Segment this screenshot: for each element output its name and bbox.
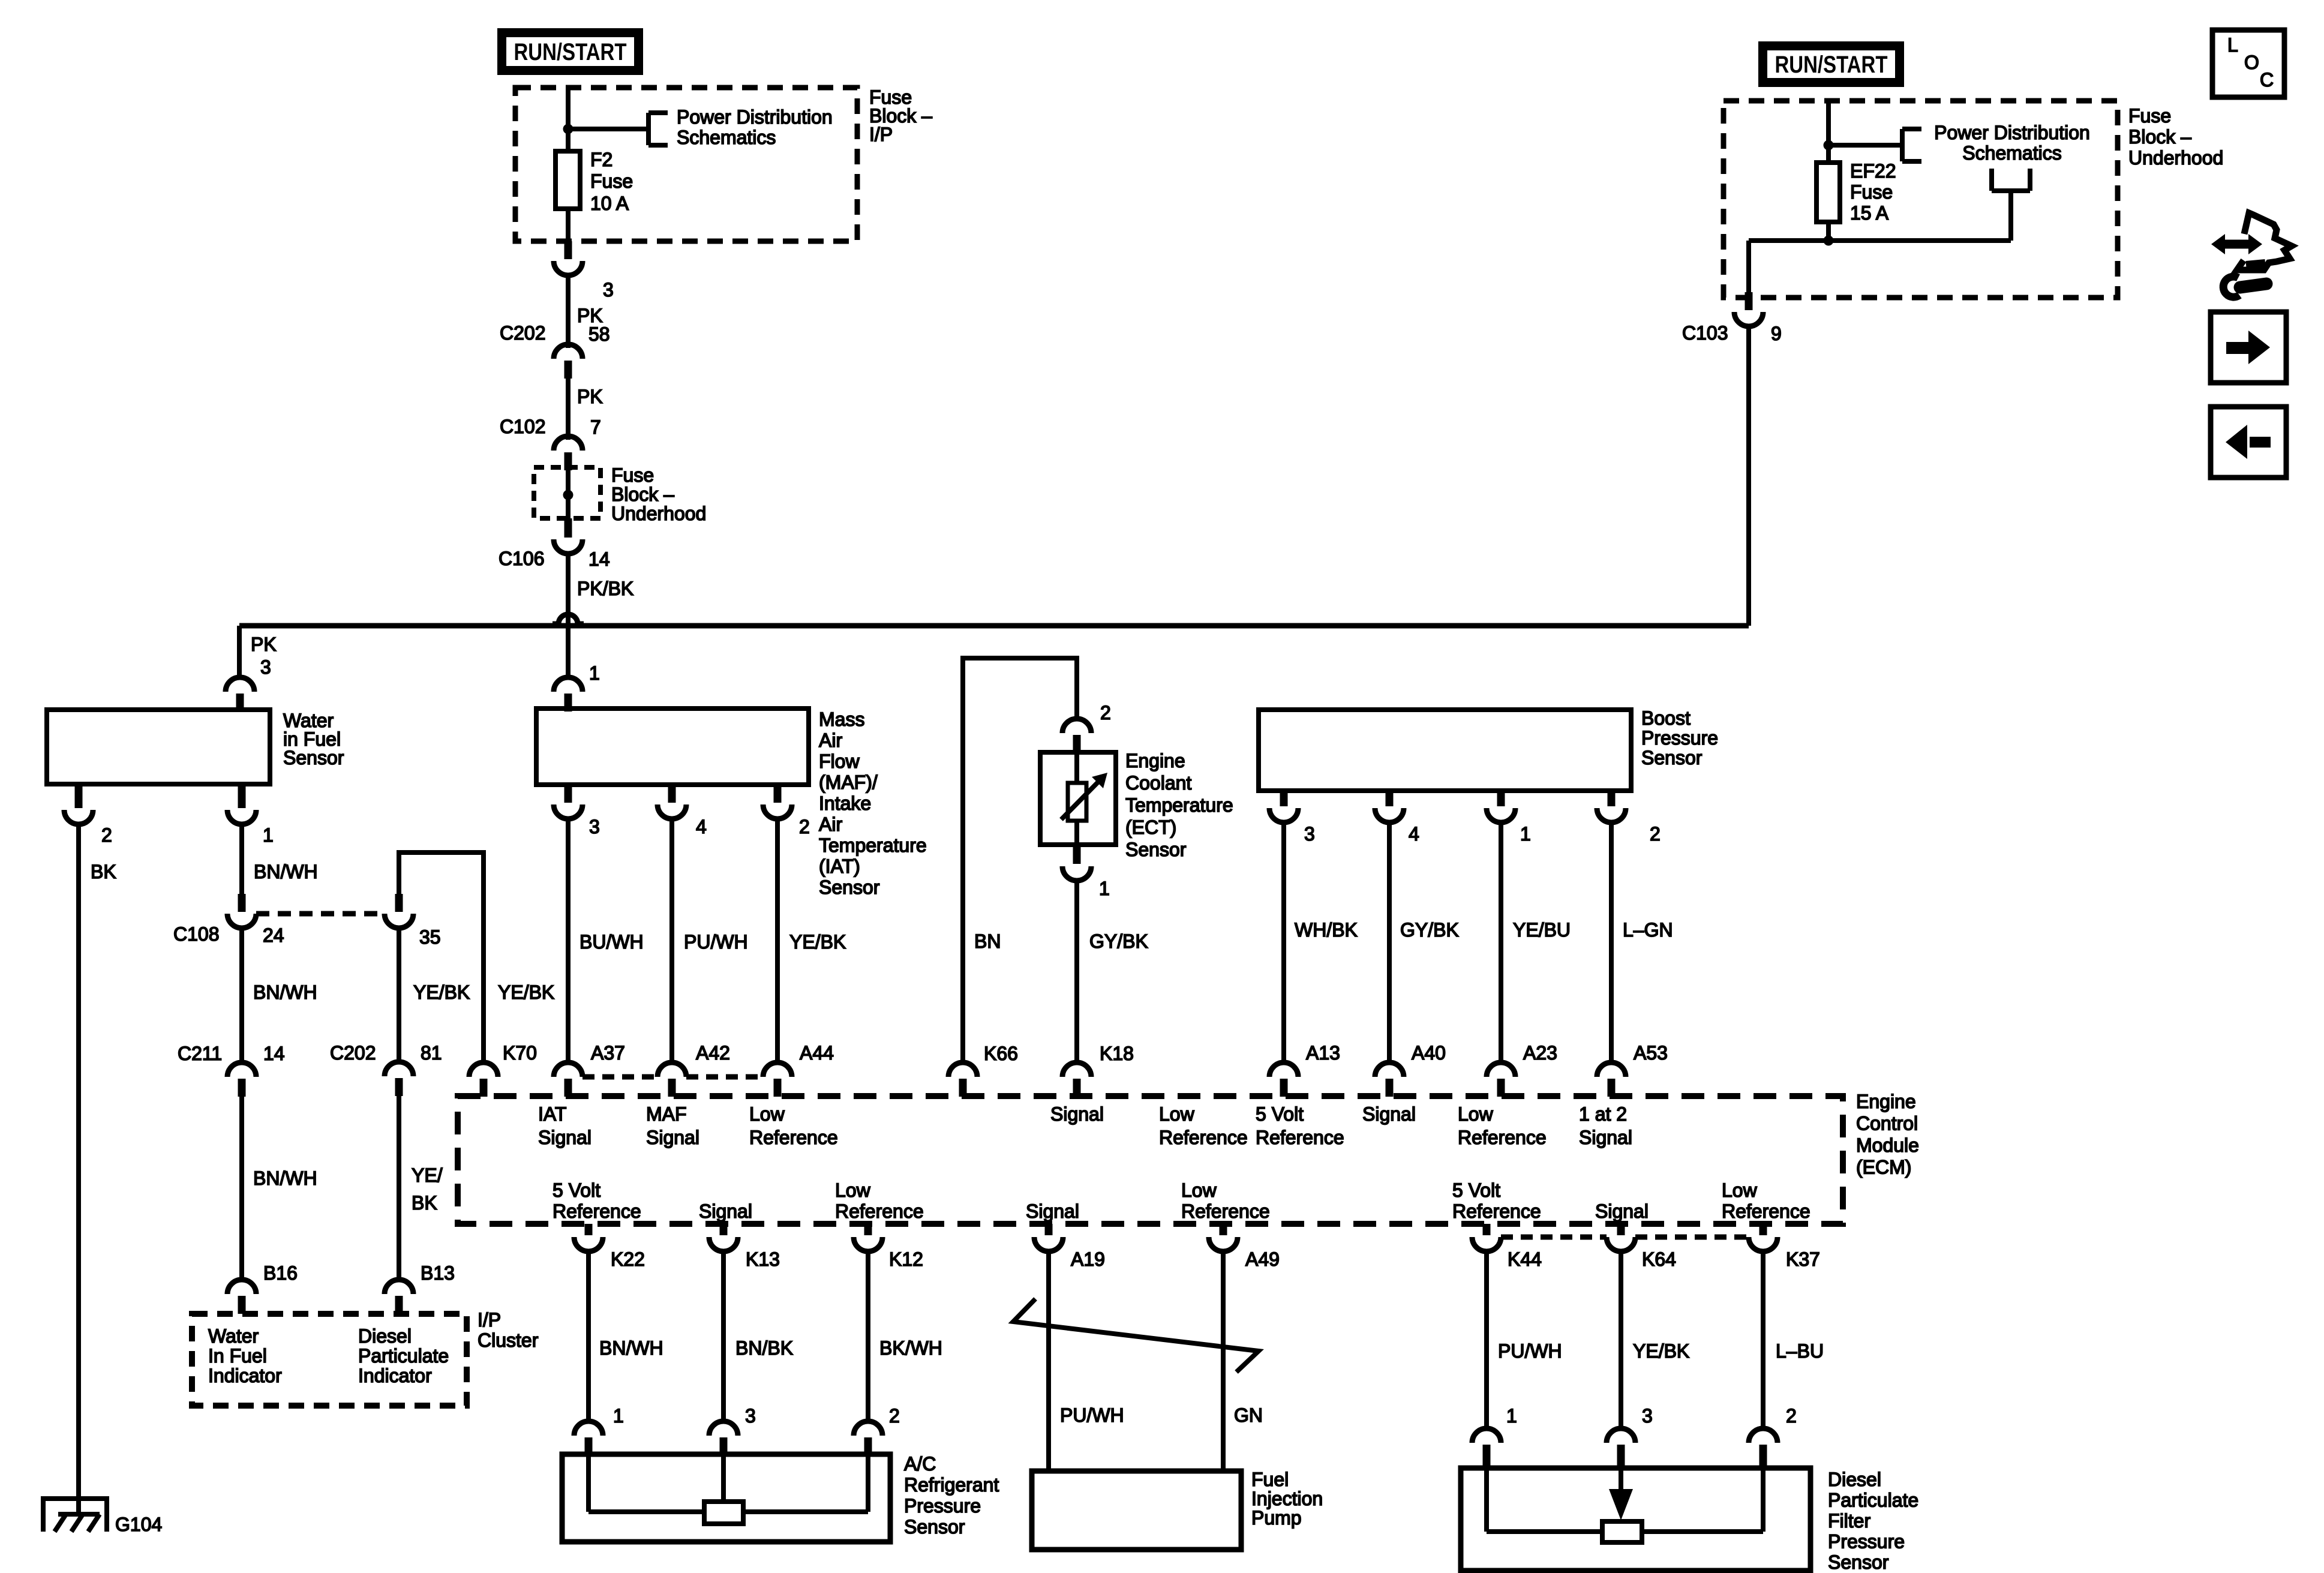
- svg-text:1: 1: [589, 662, 600, 684]
- svg-text:Engine: Engine: [1125, 750, 1185, 772]
- svg-text:BN/BK: BN/BK: [735, 1337, 793, 1359]
- svg-text:2: 2: [889, 1405, 900, 1427]
- svg-text:Fuse: Fuse: [2128, 105, 2171, 127]
- svg-text:BU/WH: BU/WH: [580, 931, 644, 953]
- svg-text:MAF: MAF: [646, 1103, 687, 1125]
- svg-text:L–GN: L–GN: [1623, 919, 1673, 941]
- svg-text:I/P: I/P: [478, 1309, 501, 1331]
- svg-text:C202: C202: [330, 1042, 376, 1064]
- svg-text:Reference: Reference: [1458, 1127, 1547, 1148]
- svg-text:YE/BK: YE/BK: [413, 981, 470, 1003]
- svg-text:Particulate: Particulate: [358, 1345, 449, 1367]
- svg-text:Pressure: Pressure: [904, 1495, 981, 1517]
- svg-text:C211: C211: [178, 1043, 222, 1064]
- svg-text:A19: A19: [1071, 1248, 1105, 1270]
- svg-text:Control: Control: [1856, 1113, 1918, 1134]
- svg-text:C108: C108: [173, 923, 220, 945]
- svg-text:G104: G104: [115, 1514, 162, 1535]
- svg-text:BN/WH: BN/WH: [254, 861, 318, 882]
- svg-text:1: 1: [1520, 823, 1531, 845]
- svg-text:Reference: Reference: [1256, 1127, 1344, 1148]
- svg-text:A37: A37: [591, 1042, 625, 1064]
- svg-text:Signal: Signal: [699, 1200, 752, 1222]
- svg-text:Sensor: Sensor: [1125, 839, 1187, 860]
- svg-text:Schematics: Schematics: [677, 127, 776, 148]
- svg-text:(ECT): (ECT): [1125, 816, 1176, 838]
- svg-text:Water: Water: [208, 1325, 259, 1347]
- svg-text:2: 2: [1650, 823, 1661, 845]
- svg-text:YE/BK: YE/BK: [498, 981, 554, 1003]
- svg-text:Pressure: Pressure: [1641, 727, 1718, 749]
- svg-text:Air: Air: [819, 730, 842, 751]
- svg-text:IAT: IAT: [538, 1103, 566, 1125]
- svg-text:Sensor: Sensor: [904, 1516, 965, 1538]
- svg-text:1: 1: [263, 824, 274, 846]
- svg-text:14: 14: [588, 548, 610, 570]
- svg-text:81: 81: [421, 1042, 442, 1064]
- svg-text:5 Volt: 5 Volt: [553, 1179, 600, 1201]
- svg-text:K22: K22: [611, 1248, 645, 1270]
- svg-text:YE/BK: YE/BK: [789, 931, 846, 953]
- svg-text:3: 3: [1642, 1405, 1653, 1427]
- svg-text:Signal: Signal: [1595, 1200, 1649, 1222]
- svg-text:GN: GN: [1234, 1404, 1263, 1426]
- svg-text:K13: K13: [746, 1248, 780, 1270]
- svg-text:Reference: Reference: [1452, 1200, 1541, 1222]
- svg-text:K18: K18: [1100, 1043, 1134, 1064]
- svg-text:Power Distribution: Power Distribution: [677, 106, 833, 128]
- svg-text:Signal: Signal: [1050, 1103, 1104, 1125]
- svg-text:K70: K70: [503, 1042, 537, 1064]
- svg-text:4: 4: [1409, 823, 1419, 845]
- svg-text:RUN/START: RUN/START: [1775, 52, 1888, 78]
- svg-text:Boost: Boost: [1641, 707, 1691, 729]
- svg-text:Power Distribution: Power Distribution: [1934, 122, 2090, 143]
- svg-text:1: 1: [1099, 878, 1110, 899]
- svg-text:A23: A23: [1523, 1042, 1557, 1064]
- svg-text:Intake: Intake: [819, 792, 871, 814]
- svg-text:C102: C102: [500, 416, 546, 437]
- svg-text:K64: K64: [1642, 1248, 1676, 1270]
- svg-text:B13: B13: [421, 1262, 455, 1284]
- svg-text:A53: A53: [1634, 1042, 1668, 1064]
- svg-text:Sensor: Sensor: [1828, 1551, 1889, 1573]
- svg-text:A49: A49: [1245, 1248, 1280, 1270]
- svg-text:Signal: Signal: [1579, 1127, 1632, 1148]
- svg-text:I/P: I/P: [869, 124, 893, 145]
- svg-text:9: 9: [1771, 323, 1782, 344]
- svg-text:(IAT): (IAT): [819, 855, 860, 877]
- svg-text:Injection: Injection: [1251, 1488, 1323, 1509]
- svg-text:BN: BN: [974, 930, 1001, 952]
- svg-text:PK/BK: PK/BK: [577, 578, 633, 599]
- svg-text:Signal: Signal: [538, 1127, 591, 1148]
- svg-text:Mass: Mass: [819, 709, 864, 730]
- svg-text:PU/WH: PU/WH: [1060, 1404, 1124, 1426]
- svg-text:L: L: [2227, 34, 2238, 56]
- svg-text:BK: BK: [412, 1192, 437, 1214]
- svg-text:2: 2: [101, 824, 112, 846]
- svg-text:Air: Air: [819, 813, 842, 835]
- svg-text:Low: Low: [1722, 1179, 1758, 1201]
- svg-text:GY/BK: GY/BK: [1089, 930, 1148, 952]
- svg-text:WH/BK: WH/BK: [1295, 919, 1358, 941]
- svg-text:Fuse: Fuse: [590, 170, 633, 192]
- svg-text:YE/BU: YE/BU: [1513, 919, 1571, 941]
- svg-text:C202: C202: [500, 322, 546, 344]
- svg-text:Diesel: Diesel: [358, 1325, 412, 1347]
- svg-text:35: 35: [419, 926, 441, 948]
- svg-text:Block –: Block –: [611, 484, 674, 505]
- svg-text:10 A: 10 A: [590, 193, 629, 214]
- svg-text:Flow: Flow: [819, 751, 860, 772]
- svg-text:Particulate: Particulate: [1828, 1490, 1918, 1511]
- svg-text:Low: Low: [749, 1103, 785, 1125]
- svg-text:Refrigerant: Refrigerant: [904, 1474, 999, 1496]
- svg-text:C106: C106: [499, 548, 545, 569]
- svg-text:58: 58: [588, 323, 610, 345]
- svg-text:A42: A42: [696, 1042, 730, 1064]
- svg-text:1: 1: [1506, 1405, 1517, 1427]
- svg-text:(ECM): (ECM): [1856, 1157, 1911, 1178]
- svg-text:1: 1: [613, 1405, 624, 1427]
- svg-text:Low: Low: [835, 1179, 871, 1201]
- svg-text:K44: K44: [1508, 1248, 1542, 1270]
- svg-text:Module: Module: [1856, 1134, 1919, 1156]
- svg-text:Low: Low: [1458, 1103, 1494, 1125]
- svg-text:Block –: Block –: [2128, 126, 2191, 148]
- svg-text:3: 3: [603, 279, 614, 301]
- svg-text:Low: Low: [1181, 1179, 1217, 1201]
- svg-text:Indicator: Indicator: [208, 1365, 282, 1386]
- svg-text:Signal: Signal: [646, 1127, 699, 1148]
- svg-text:Reference: Reference: [1159, 1127, 1248, 1148]
- svg-text:GY/BK: GY/BK: [1400, 919, 1459, 941]
- svg-text:BN/WH: BN/WH: [253, 981, 317, 1003]
- svg-text:Temperature: Temperature: [1125, 794, 1233, 816]
- svg-text:Coolant: Coolant: [1125, 772, 1191, 794]
- svg-text:1 at 2: 1 at 2: [1579, 1103, 1627, 1125]
- svg-text:2: 2: [799, 816, 810, 837]
- svg-text:24: 24: [263, 924, 284, 946]
- svg-text:A44: A44: [800, 1042, 834, 1064]
- svg-text:Signal: Signal: [1026, 1200, 1079, 1222]
- svg-text:K37: K37: [1786, 1248, 1820, 1270]
- svg-text:PK: PK: [251, 634, 277, 655]
- svg-text:3: 3: [260, 656, 271, 678]
- svg-text:Underhood: Underhood: [611, 503, 706, 524]
- svg-text:C103: C103: [1682, 322, 1728, 344]
- svg-text:O: O: [2244, 52, 2259, 73]
- svg-text:2: 2: [1786, 1405, 1797, 1427]
- svg-text:Cluster: Cluster: [478, 1329, 539, 1351]
- svg-text:A13: A13: [1306, 1042, 1340, 1064]
- svg-text:2: 2: [1100, 702, 1111, 724]
- svg-text:Sensor: Sensor: [283, 747, 344, 769]
- svg-text:Filter: Filter: [1828, 1510, 1870, 1532]
- svg-text:5 Volt: 5 Volt: [1256, 1103, 1304, 1125]
- svg-text:Pressure: Pressure: [1828, 1531, 1905, 1553]
- svg-text:B16: B16: [263, 1262, 298, 1284]
- svg-text:Indicator: Indicator: [358, 1365, 432, 1386]
- svg-text:Reference: Reference: [749, 1127, 838, 1148]
- svg-text:Reference: Reference: [835, 1200, 924, 1222]
- svg-text:C: C: [2260, 69, 2274, 91]
- svg-text:A/C: A/C: [904, 1453, 936, 1475]
- svg-text:L–BU: L–BU: [1776, 1340, 1824, 1362]
- svg-text:BK/WH: BK/WH: [879, 1337, 942, 1359]
- svg-text:14: 14: [263, 1043, 285, 1064]
- svg-text:Underhood: Underhood: [2128, 147, 2223, 169]
- svg-text:EF22: EF22: [1850, 160, 1896, 182]
- svg-text:Fuse: Fuse: [1850, 181, 1893, 203]
- svg-text:PU/WH: PU/WH: [1498, 1340, 1562, 1362]
- svg-text:Low: Low: [1159, 1103, 1195, 1125]
- svg-text:BN/WH: BN/WH: [253, 1167, 317, 1189]
- svg-text:F2: F2: [590, 149, 612, 170]
- svg-text:Reference: Reference: [1722, 1200, 1810, 1222]
- svg-text:Sensor: Sensor: [819, 876, 880, 898]
- svg-text:7: 7: [590, 416, 601, 438]
- svg-text:BK: BK: [91, 861, 116, 882]
- svg-text:3: 3: [745, 1405, 756, 1427]
- svg-text:RUN/START: RUN/START: [514, 39, 627, 65]
- svg-text:YE/: YE/: [412, 1164, 443, 1186]
- svg-text:4: 4: [696, 816, 707, 837]
- svg-text:BN/WH: BN/WH: [599, 1337, 663, 1359]
- svg-text:Sensor: Sensor: [1641, 747, 1703, 769]
- svg-text:Temperature: Temperature: [819, 834, 927, 856]
- svg-text:YE/BK: YE/BK: [1633, 1340, 1689, 1362]
- svg-text:5 Volt: 5 Volt: [1452, 1179, 1500, 1201]
- svg-text:Fuse: Fuse: [611, 464, 654, 486]
- svg-text:Schematics: Schematics: [1962, 142, 2061, 164]
- svg-text:PK: PK: [577, 386, 603, 407]
- svg-text:Fuel: Fuel: [1251, 1469, 1289, 1490]
- svg-text:Engine: Engine: [1856, 1091, 1916, 1112]
- svg-text:Reference: Reference: [553, 1200, 641, 1222]
- svg-text:3: 3: [589, 816, 600, 837]
- svg-text:K66: K66: [984, 1043, 1018, 1064]
- svg-text:Diesel: Diesel: [1828, 1469, 1881, 1490]
- svg-text:A40: A40: [1412, 1042, 1446, 1064]
- svg-text:PU/WH: PU/WH: [684, 931, 748, 953]
- svg-text:Pump: Pump: [1251, 1507, 1302, 1529]
- svg-text:15 A: 15 A: [1850, 202, 1889, 224]
- svg-text:Signal: Signal: [1362, 1103, 1416, 1125]
- svg-text:In Fuel: In Fuel: [208, 1345, 267, 1367]
- svg-text:K12: K12: [889, 1248, 923, 1270]
- svg-text:Reference: Reference: [1181, 1200, 1270, 1222]
- svg-text:3: 3: [1304, 823, 1315, 845]
- svg-text:(MAF)/: (MAF)/: [819, 772, 878, 793]
